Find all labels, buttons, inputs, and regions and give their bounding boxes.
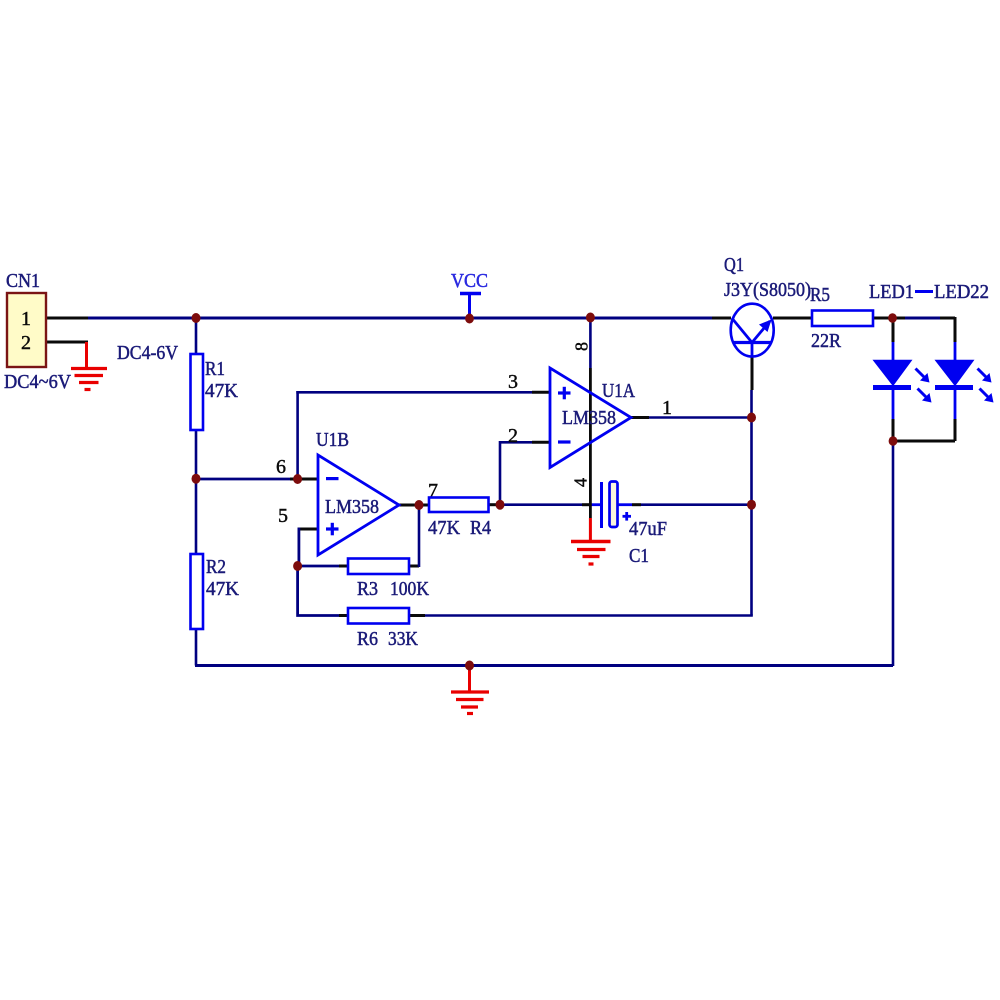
- wire R1 bottom leg: [195, 430, 198, 479]
- wire R3 left stub: [298, 565, 348, 568]
- LED LED1: [873, 361, 932, 403]
- wire pin2 bend: [500, 442, 550, 504]
- resistor R2: [191, 554, 240, 629]
- svg-text:LM358: LM358: [325, 496, 379, 518]
- resistor R6: [348, 608, 418, 650]
- svg-text:1: 1: [21, 308, 31, 330]
- svg-text:8: 8: [572, 342, 592, 351]
- LED LED22: [935, 361, 994, 403]
- svg-text:R4: R4: [470, 517, 491, 539]
- wire top rail CN1 to Q1: [46, 317, 731, 320]
- svg-text:Q1: Q1: [724, 254, 744, 276]
- wire R5 to LED branch corner: [873, 317, 955, 320]
- ground at bottom rail: [451, 666, 489, 714]
- svg-text:LED22: LED22: [934, 281, 989, 303]
- wire LED22 anode leg: [954, 317, 957, 361]
- node R4 right: [496, 500, 505, 510]
- svg-text:LED1: LED1: [869, 281, 914, 303]
- ground at U1A pin4: [571, 518, 611, 564]
- ground at CN1 pin2: [71, 342, 107, 390]
- svg-text:6: 6: [276, 456, 286, 478]
- wire U1B output stub: [399, 504, 429, 507]
- wire pin8 pin4 vertical: [589, 318, 592, 518]
- svg-text:CN1: CN1: [6, 270, 40, 292]
- svg-text:47uF: 47uF: [629, 518, 667, 540]
- resistor R5: [810, 284, 873, 352]
- transistor Q1: [724, 254, 811, 357]
- node R1 bottom: [192, 474, 201, 484]
- svg-text:33K: 33K: [388, 628, 418, 650]
- svg-text:R5: R5: [810, 284, 830, 306]
- wire output node down to C1 node: [750, 418, 753, 505]
- svg-text:R3: R3: [357, 578, 378, 600]
- node VCC tap: [465, 314, 474, 324]
- node pin8 tap: [586, 313, 595, 323]
- wire R3 right stub: [409, 565, 419, 568]
- svg-text:5: 5: [278, 505, 288, 527]
- svg-text:DC4-6V: DC4-6V: [117, 342, 178, 364]
- node bottom ground tap: [465, 661, 474, 671]
- resistor R1: [191, 354, 239, 430]
- wire LED bottom link: [893, 440, 955, 443]
- op-amp U1B: [276, 429, 438, 555]
- label DC4-6V: [117, 342, 178, 364]
- node U1A output: [747, 413, 756, 423]
- node LED1 top: [888, 313, 897, 323]
- svg-text:47K: 47K: [206, 578, 240, 600]
- wire C1 right plate to feedback node: [618, 503, 752, 506]
- wire CN1 pin2 stub: [46, 341, 88, 344]
- wire R2 bottom leg: [195, 630, 198, 666]
- svg-text:22R: 22R: [811, 330, 842, 352]
- svg-text:100K: 100K: [390, 578, 429, 600]
- resistor R3: [348, 559, 429, 601]
- connector CN1: [4, 270, 72, 393]
- wire pin5 bend: [298, 528, 319, 566]
- svg-text:1: 1: [662, 397, 672, 419]
- wire node to C1 left plate: [500, 503, 602, 506]
- svg-text:J3Y(S8050): J3Y(S8050): [724, 279, 811, 301]
- wire vertical up from pin6 node: [296, 391, 299, 479]
- node pin6: [293, 474, 302, 484]
- wire R1 top leg: [195, 318, 198, 354]
- svg-text:R6: R6: [357, 628, 378, 650]
- wire Q1 base vertical: [750, 357, 754, 418]
- svg-text:2: 2: [21, 332, 31, 354]
- node U1B output: [415, 500, 424, 510]
- wire R4 right stub: [489, 503, 501, 506]
- svg-text:R1: R1: [205, 358, 225, 380]
- wire Q1 emitter to R5: [773, 317, 812, 320]
- svg-text:C1: C1: [629, 545, 649, 567]
- wire R6 right to feedback vertical: [409, 614, 753, 617]
- node C1 right: [747, 500, 756, 510]
- node pin5 feedback: [293, 561, 302, 571]
- wire U1A output: [631, 416, 752, 419]
- wire pin5 node down to R6: [298, 566, 348, 616]
- label LED1-LED22: [869, 281, 989, 303]
- wire pin3 horizontal: [296, 391, 550, 394]
- svg-text:U1B: U1B: [316, 429, 349, 451]
- resistor R4: [428, 498, 491, 540]
- svg-text:DC4~6V: DC4~6V: [4, 371, 72, 393]
- wire LED1 anode leg: [892, 318, 895, 361]
- node R1 top: [192, 313, 201, 323]
- svg-text:VCC: VCC: [451, 270, 488, 292]
- svg-text:LM358: LM358: [562, 407, 616, 429]
- wire LED1 cathode leg: [892, 390, 895, 441]
- svg-text:2: 2: [508, 425, 518, 447]
- node LED bottom: [889, 436, 898, 446]
- wire bottom rail: [195, 664, 893, 667]
- wire C1 node down to R6 row: [750, 505, 753, 616]
- svg-text:U1A: U1A: [602, 380, 635, 402]
- svg-text:47K: 47K: [205, 380, 239, 402]
- svg-text:47K: 47K: [428, 517, 461, 539]
- wire feedback vertical R3 to U1B output: [418, 505, 421, 567]
- svg-text:3: 3: [508, 371, 518, 393]
- wire LED22 cathode leg: [954, 390, 957, 441]
- wire R2 top leg: [195, 479, 198, 554]
- svg-text:4: 4: [571, 478, 591, 487]
- wire pin6 horizontal: [196, 478, 318, 481]
- power VCC: [451, 270, 488, 318]
- op-amp U1A: [508, 342, 672, 487]
- svg-text:R2: R2: [206, 556, 226, 578]
- wire LED node down to bottom rail: [892, 441, 895, 666]
- capacitor C1: [602, 482, 668, 568]
